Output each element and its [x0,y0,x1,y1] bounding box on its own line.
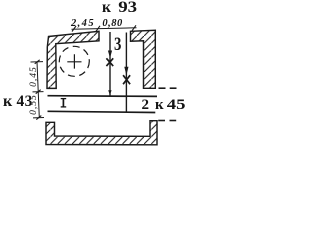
dash DS2 [170,87,177,89]
extension line E2 [33,91,44,93]
wall W1 top-left L-shaped hatched section [47,31,99,88]
dimension line D1 horizontal top [72,28,137,29]
tick T5 [36,90,41,94]
arrow A3 on line L2 [124,67,128,76]
svg-text:43: 43 [17,93,33,110]
svg-text:к: к [155,97,164,113]
extension line E1 at fan axis [31,61,44,63]
valve V2 on line L2 [123,75,130,84]
svg-text:к: к [3,93,13,110]
svg-text:45: 45 [167,96,186,113]
svg-text:2,45: 2,45 [70,18,95,29]
duct channel bottom line [48,111,156,112]
tick T3 [132,25,136,31]
extension line E3 [33,117,44,119]
arrow A1 on line L1 [108,51,112,59]
valve V1 on line L1 [106,58,113,66]
tick T1 [72,26,76,32]
tick T4 [35,60,40,64]
duct channel top line [48,95,158,98]
wall W2 top-right hatched section [131,30,156,88]
flow line L2 [125,33,127,113]
svg-text:2: 2 [142,97,150,113]
fan F1 axis cross [67,54,81,68]
dash DS4 [170,120,177,122]
svg-text:0,45: 0,45 [29,66,39,87]
svg-text:93: 93 [118,0,137,16]
tick T2 [96,26,100,32]
wall W3 bottom hatched channel wall [46,121,157,145]
dimension line D2 vertical left [37,62,39,118]
dash DS3 after wall W3 upturn [158,120,165,122]
tick T6 [36,116,41,120]
dash DS1 after wall W2 [159,87,166,89]
flow line L1 [109,32,111,96]
fan F1 dashed circle [59,46,89,76]
arrow A2 at bottom of line L1 [108,90,111,95]
svg-text:к: к [102,0,111,16]
svg-text:3: 3 [114,34,121,55]
label I [61,98,66,107]
svg-text:0,80: 0,80 [102,18,123,29]
